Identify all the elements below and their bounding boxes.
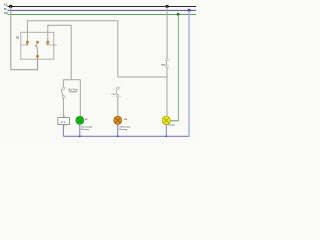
- wire left feed down: [11, 7, 38, 70]
- selector contact hooks: [26, 43, 28, 44]
- node bus-H2: [117, 135, 119, 137]
- svg-text:Serviceable: Serviceable: [46, 45, 57, 47]
- wire H1 lamp to N bus (blue): [79, 124, 81, 136]
- switch KM1 (NC contact on middle column): [117, 87, 120, 90]
- wire H2 lamp to N bus (blue): [117, 124, 119, 136]
- node bus-H3: [165, 135, 167, 137]
- svg-text:PE: PE: [4, 11, 8, 15]
- svg-text:Runway: Runway: [81, 129, 90, 131]
- svg-text:K 1: K 1: [61, 120, 66, 124]
- node L1 right dot: [166, 5, 169, 8]
- selector terminal dots: [26, 41, 28, 43]
- wire contact3 to H2: [48, 25, 71, 79]
- switch S2 pre-time (on K1 column): [62, 87, 65, 90]
- svg-text:Caution: Caution: [168, 124, 176, 127]
- node N right dot: [188, 9, 191, 12]
- lamp H3 yellow caution: [162, 116, 170, 124]
- svg-text:2: 2: [65, 98, 66, 100]
- svg-text:Runway: Runway: [119, 129, 128, 131]
- switch S3 (caution column): [166, 58, 169, 61]
- wire H3 lamp to N bus (blue): [165, 124, 167, 136]
- rail L1: [8, 6, 197, 8]
- svg-text:1: 1: [169, 58, 170, 60]
- wire L1 right to switch: [166, 7, 168, 59]
- lamp H2 orange: [114, 116, 122, 124]
- lamp H1 green: [79, 115, 81, 117]
- wire switch to lamp H3: [166, 68, 168, 117]
- rail PE: [8, 13, 197, 15]
- wire branch H4 to caution column: [118, 76, 167, 78]
- svg-text:3: 3: [119, 87, 120, 89]
- node PE right dot: [177, 13, 180, 16]
- svg-text:Trimmer: Trimmer: [69, 91, 78, 94]
- node L1 feed dot: [9, 5, 12, 8]
- svg-text:L1: L1: [4, 2, 8, 6]
- wire H3 lamp to PE (green): [170, 120, 178, 122]
- relay coil K1: [58, 118, 70, 125]
- N riser right (blue): [188, 10, 190, 136]
- N bus bottom (blue): [63, 135, 189, 137]
- rail N: [8, 9, 197, 11]
- wire H3 split to K1 and H1 lamp: [63, 80, 80, 115]
- svg-text:Closed: Closed: [22, 45, 28, 47]
- wire K1 to N bus (blue): [62, 125, 64, 137]
- selector arm: [36, 45, 37, 56]
- svg-text:2: 2: [170, 69, 171, 71]
- svg-text:1: 1: [65, 87, 66, 89]
- node bus-H1: [79, 135, 81, 137]
- selector switch S1 box: [21, 32, 54, 59]
- selector pole dot: [36, 55, 38, 57]
- wire KM1 to lamp H2: [117, 97, 119, 116]
- svg-text:4: 4: [120, 97, 121, 99]
- wire S2 to K1 coil: [62, 98, 64, 118]
- wire contact1 to H1 to middle column: [27, 21, 117, 77]
